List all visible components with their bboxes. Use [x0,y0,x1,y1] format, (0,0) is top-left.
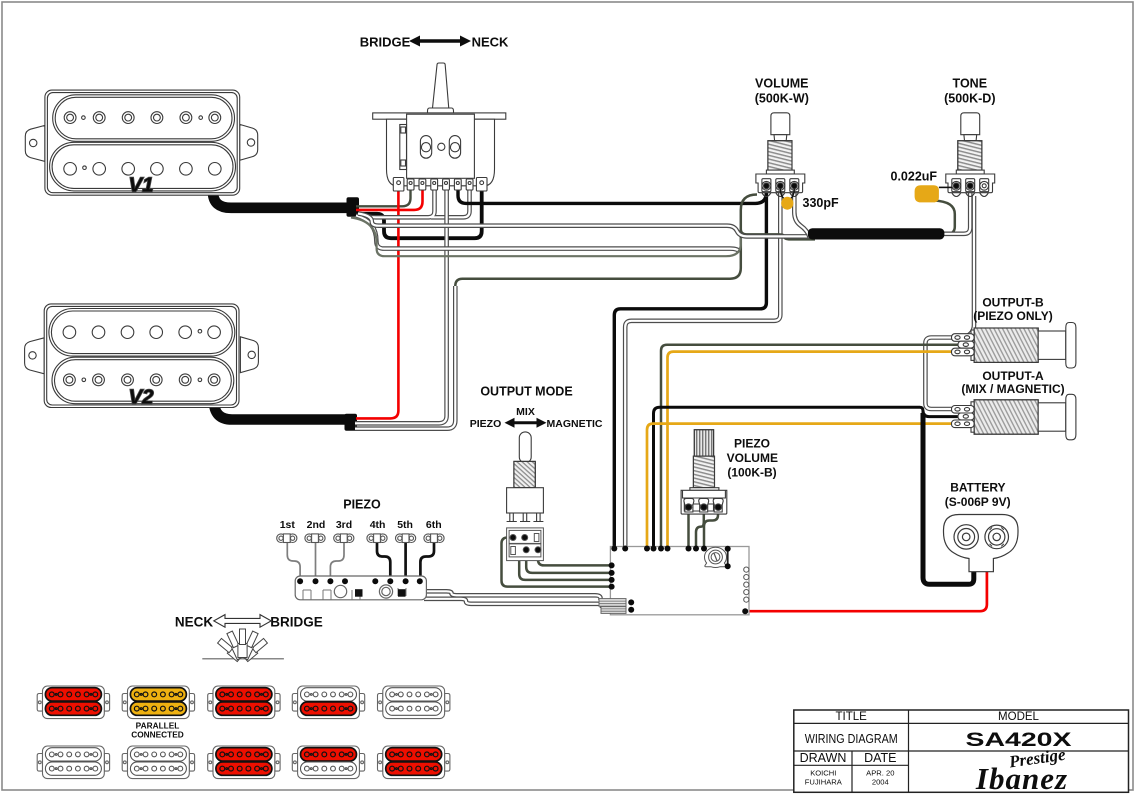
svg-text:TONE: TONE [953,77,988,91]
title block table [794,710,1129,792]
svg-text:MAGNETIC: MAGNETIC [547,418,603,430]
svg-text:APR. 20: APR. 20 [866,769,894,778]
svg-text:330pF: 330pF [803,196,839,210]
wire white from tone area down to jack B sleeve [966,196,974,337]
svg-text:2004: 2004 [872,778,889,787]
svg-text:PIEZO: PIEZO [343,498,381,512]
wire white piezo bridge to PCB connector 1 [424,591,601,600]
wire white ground link jack B to jack A [925,338,962,410]
wire black jumpers inside bridge bar [345,581,356,592]
lever position fan [202,629,284,662]
wire red battery plus to PCB [745,570,987,611]
wire white tone lug2 into cable jacket [938,189,970,234]
svg-text:1st: 1st [280,519,296,531]
wire olive V1 to switch lug2 [356,188,411,206]
svg-text:6th: 6th [426,519,442,531]
svg-text:NECK: NECK [175,615,214,630]
mini pickup row1 pos5 (both white) [378,686,450,719]
piezo bridge junction bar [295,576,426,600]
PCB preamp board [599,546,749,615]
svg-text:VOLUME: VOLUME [727,451,778,465]
svg-text:PIEZO: PIEZO [470,418,502,430]
mini pickup row1 pos2 (parallel, yellow) [122,686,194,719]
toggle wiring connector block [507,528,544,561]
wire V2 cable jacket [214,399,346,420]
piezo saddles 1st-6th [277,534,444,543]
wire black piezo saddles 4-6 to bridge bar [377,543,390,582]
wire white V1 conductor A to tone cable jacket [358,214,815,237]
svg-text:NECK: NECK [472,35,509,50]
svg-text:BATTERY: BATTERY [950,481,1005,495]
svg-text:DRAWN: DRAWN [800,751,847,765]
battery snap connector [944,515,1019,572]
mini pickup row2 pos3 (both red) [208,746,280,779]
wire V2 cable end cap [345,414,358,431]
mini pickup row2 pos2 (both white) [122,746,194,779]
wire white V1 to switch lugs 4 and 7 [361,189,435,217]
wire V1 cable jacket [213,190,348,208]
PCB ribbon connectors [599,599,626,614]
wire white piezo bridge to PCB connector 2 [424,599,602,608]
volume pot (500K-W) [756,113,805,197]
svg-text:(100K-B): (100K-B) [727,466,776,480]
svg-text:FUJIHARA: FUJIHARA [805,778,843,787]
svg-text:CONNECTED: CONNECTED [131,730,184,740]
svg-text:5th: 5th [397,519,413,531]
svg-text:4th: 4th [370,519,386,531]
svg-text:V1: V1 [128,174,153,197]
wire red V2 to switch lug1 [356,186,398,418]
wire thick black to battery minus [923,413,974,584]
mini pickup row1 pos4 (white top, red bottom) [292,686,364,719]
wire olive toggle connector to PCB (4 wires) [502,538,612,587]
wire gray piezo saddles 1-3 to bridge bar [287,543,300,582]
piezo volume pot (100K-B) [681,430,727,514]
svg-text:OUTPUT-B: OUTPUT-B [982,296,1044,310]
mini pickup row2 pos1 (both white) [37,746,109,779]
PCB solder dots [609,546,749,615]
wire white V1 conductor B to volume lug1 area [356,216,740,253]
mini pickup row1 pos3 (both red) [208,686,280,719]
wire white V2 second conductor rising to ground bus [355,286,455,429]
trimpot [705,547,727,567]
svg-text:V2: V2 [128,386,154,409]
svg-text:(PIEZO ONLY): (PIEZO ONLY) [973,309,1053,323]
svg-text:KOICHI: KOICHI [810,769,836,778]
wire black V1 to switch lug8 [356,186,482,238]
wire yellow PCB to jack A [647,424,962,547]
svg-text:MIX: MIX [516,406,535,418]
wire yellow PCB to jack B [668,352,963,547]
0.022uF capacitor [915,185,939,202]
svg-text:DATE: DATE [864,751,896,765]
PCB edge pads [744,567,749,602]
wire V1 cable end cap [347,197,360,216]
wire olive branch ground bus to tone cable [741,230,815,240]
wire white volume lug2 down to PCB [625,189,780,547]
5-way lever switch [373,63,506,191]
svg-text:(500K-W): (500K-W) [755,92,809,106]
svg-text:2nd: 2nd [307,519,326,531]
svg-text:(MIX / MAGNETIC): (MIX / MAGNETIC) [961,382,1064,396]
mini pickup row1 pos1 (both red) [37,686,109,719]
output jack A (mix / magnetic) [952,394,1076,440]
svg-text:PIEZO: PIEZO [734,436,770,450]
wire black volume lug1 down to PCB [614,188,766,547]
tone pot (500K-D) [946,113,995,197]
wire olive PCB to jack B tip [661,345,960,547]
tone cable jacket black bar [808,228,945,239]
svg-text:BRIDGE: BRIDGE [270,615,323,630]
svg-text:(S-006P 9V): (S-006P 9V) [945,495,1011,509]
wire gray-olive V1 lower conductor to ground bus [351,218,741,257]
svg-text:OUTPUT MODE: OUTPUT MODE [480,385,572,399]
wire olive right side: cable to 0.022uF cap [934,201,955,234]
svg-text:BRIDGE: BRIDGE [360,35,411,50]
wire red V1 to switch lug3 [356,188,423,210]
humbucker pickup V1 [25,90,257,196]
svg-text:(500K-D): (500K-D) [944,92,995,106]
330pF capacitor [780,189,794,199]
humbucker pickup V2 [25,304,259,409]
wire white volume lug3 stub [794,189,809,237]
wire white V2 to switch lug5 [355,189,447,423]
svg-text:3rd: 3rd [336,519,352,531]
mini pickup row2 pos5 (both red) [378,746,450,779]
svg-text:VOLUME: VOLUME [755,77,808,91]
mini pickup row2 pos4 (red top, white bottom) [292,746,364,779]
wire black PCB to jack A and battery [654,407,924,547]
svg-text:WIRING DIAGRAM: WIRING DIAGRAM [805,732,898,746]
svg-text:MODEL: MODEL [998,711,1040,723]
output mode toggle switch [507,432,544,522]
svg-text:TITLE: TITLE [836,711,868,723]
svg-text:0.022uF: 0.022uF [891,170,938,184]
wire olive piezo volume lugs to PCB [687,507,690,549]
wire black switch lug6 to volume lug1 [458,186,766,203]
switch lugs (8) [393,178,487,192]
wire olive ground bus: volume casing down, across to V2 [455,195,757,287]
output jack B (piezo only) [952,323,1076,369]
